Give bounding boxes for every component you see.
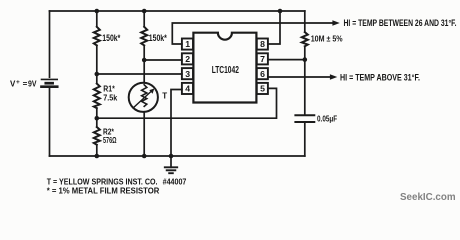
node junction bottom rail / ground xyxy=(169,154,174,159)
wire pin 8 to top rail xyxy=(268,11,280,44)
pin 8 xyxy=(257,39,268,50)
wire pin 2 xyxy=(144,59,182,61)
battery label V+ = 9V xyxy=(10,79,37,88)
svg-text:9V: 9V xyxy=(28,79,37,88)
svg-text:+: + xyxy=(16,79,20,86)
pin 4 xyxy=(182,83,193,94)
ground xyxy=(165,156,177,173)
pin 2 xyxy=(182,53,193,64)
pin 3 xyxy=(182,68,193,79)
node junction 150k#2 / thermistor / pin2 wire xyxy=(142,58,147,63)
svg-text:LTC1042: LTC1042 xyxy=(212,65,239,76)
wire 150k#1 bottom stub xyxy=(96,45,98,74)
wire pin 6 output xyxy=(268,76,331,78)
svg-text:1: 1 xyxy=(185,39,190,49)
wire thermistor bottom stub xyxy=(143,112,145,156)
svg-text:7.5k: 7.5k xyxy=(103,93,117,103)
svg-text:576Ω: 576Ω xyxy=(103,135,117,145)
svg-text:7: 7 xyxy=(260,54,265,64)
wire 150k#2 top stub xyxy=(143,11,145,27)
svg-text:HI = TEMP ABOVE 31°F.: HI = TEMP ABOVE 31°F. xyxy=(340,72,420,82)
wire top rail corner down to 10M xyxy=(304,11,306,32)
arrow output 2 xyxy=(330,74,337,80)
svg-text:3: 3 xyxy=(185,69,190,79)
resistor 150k* #1 xyxy=(94,27,100,46)
node junction bottom rail / R2 xyxy=(95,154,100,159)
pin 6 xyxy=(257,68,268,79)
node junction top rail / pin8 wire xyxy=(278,9,283,14)
svg-text:5: 5 xyxy=(260,84,265,94)
svg-text:2: 2 xyxy=(185,54,190,64)
svg-text:4: 4 xyxy=(185,84,190,94)
pin 5 xyxy=(257,83,268,94)
node junction R1 / R2 / pin5 wire xyxy=(95,116,100,121)
pin 1 xyxy=(182,39,193,50)
svg-text:150k*: 150k* xyxy=(102,33,120,43)
op-amp U1 LTC1042 body xyxy=(193,33,256,103)
svg-text:* = 1% METAL FILM RESISTOR: * = 1% METAL FILM RESISTOR xyxy=(47,185,160,195)
node junction bottom rail / thermistor xyxy=(142,154,147,159)
resistor 10M xyxy=(302,32,308,46)
wire capacitor bottom to rail xyxy=(304,122,306,156)
wire 150k#1 top stub xyxy=(96,11,98,27)
wire top rail xyxy=(50,10,305,12)
wire thermistor top stub xyxy=(143,60,145,83)
svg-text:HI = TEMP BETWEEN 26 AND 31°F.: HI = TEMP BETWEEN 26 AND 31°F. xyxy=(344,18,457,28)
node junction top rail / 150k #1 xyxy=(95,9,100,14)
resistor 150k* #2 xyxy=(141,27,147,46)
node junction top rail / 150k #2 xyxy=(142,9,147,14)
node junction 150k#1 / R1 / pin3 wire xyxy=(95,72,100,77)
svg-text:0.05μF: 0.05μF xyxy=(317,113,337,123)
wire pin 7 xyxy=(268,59,305,61)
pin 7 xyxy=(257,53,268,64)
svg-text:6: 6 xyxy=(260,69,265,79)
svg-text:10M ± 5%: 10M ± 5% xyxy=(311,33,343,43)
thermistor T xyxy=(129,83,158,112)
resistor R1 7.5k xyxy=(94,74,100,118)
capacitor 0.05uF xyxy=(295,115,314,122)
resistor R2 576 ohm xyxy=(94,118,100,156)
svg-text:=: = xyxy=(23,79,28,88)
battery B1 9V xyxy=(42,11,58,156)
arrow output 1 xyxy=(332,20,339,26)
svg-text:T: T xyxy=(162,91,167,100)
wire pin 1 output over IC xyxy=(172,23,333,44)
svg-text:8: 8 xyxy=(260,39,265,49)
wire 10M bottom to capacitor xyxy=(304,46,306,114)
node junction 10M / pin7 wire xyxy=(303,57,308,62)
svg-text:SeekIC.com: SeekIC.com xyxy=(400,192,456,203)
wire 150k#2 bottom stub xyxy=(143,45,145,60)
wire pin 4 to ground rail xyxy=(171,90,182,157)
wire pin 3 xyxy=(97,73,182,75)
wire pin 5 run under IC xyxy=(97,88,277,118)
wire bottom rail xyxy=(50,155,305,157)
svg-text:150k*: 150k* xyxy=(149,33,167,43)
